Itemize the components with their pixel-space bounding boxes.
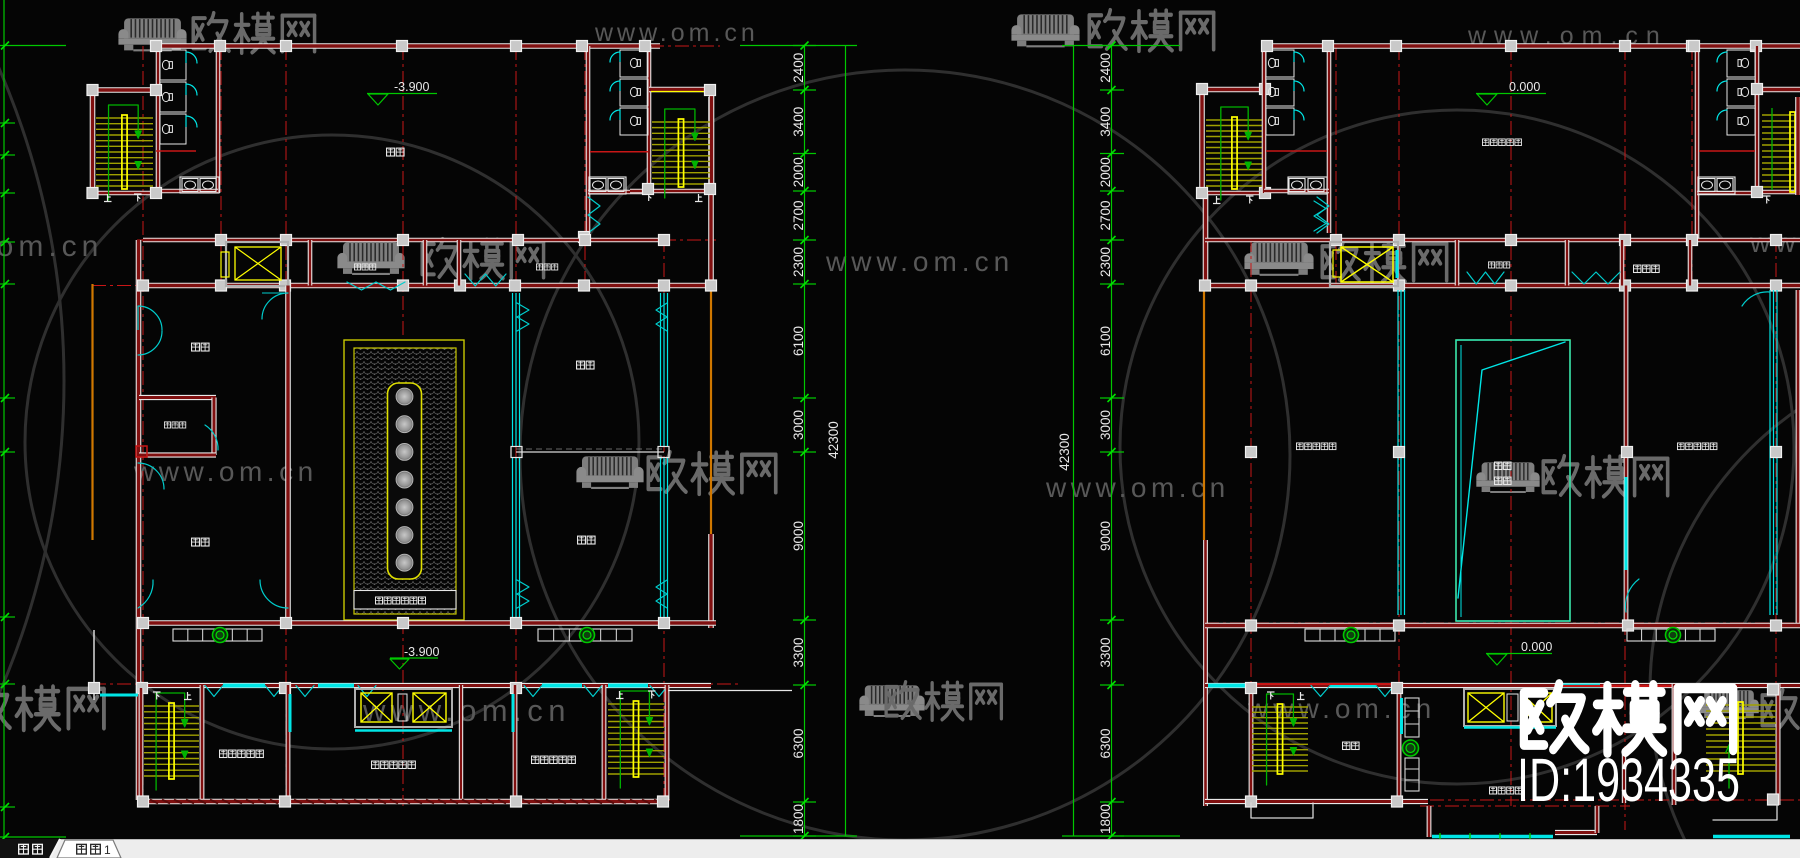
RP stair TL treads (1206, 119, 1263, 121)
svg-text:www.om.cn: www.om.cn (594, 19, 759, 47)
kitchen2 label (192, 538, 200, 546)
site logo big (1524, 684, 1733, 753)
band2 bottom wall (137, 283, 716, 289)
model tab dark (0, 839, 60, 858)
toilet block TL walls (156, 46, 161, 193)
RP right window wall (1769, 290, 1771, 615)
left exterior white line lower (93, 630, 95, 700)
RP left window wall (1400, 290, 1402, 615)
axis grid right plan (1250, 238, 1252, 806)
RP right room left wall (1624, 286, 1629, 624)
RP left exterior wall (1203, 195, 1209, 284)
bottom band bottom columns (138, 796, 149, 807)
stair TR corner columns (705, 85, 716, 96)
watermark circle center (520, 70, 1290, 840)
bottom band windows (223, 684, 265, 688)
svg-text:2400: 2400 (791, 53, 806, 83)
kitchen1 doors (138, 306, 162, 330)
RP entrance cyan (1432, 835, 1553, 839)
RP toilet TR walls (1695, 46, 1700, 240)
svg-text:www.om.cn: www.om.cn (825, 246, 1014, 277)
RP stair TL labels (1213, 196, 1221, 204)
corridor wall (285, 286, 291, 624)
stair BR treads (608, 703, 664, 705)
toilet TR sinks (589, 177, 626, 194)
svg-text:1: 1 (104, 843, 111, 857)
watermark sofa+logo top-center (1011, 14, 1079, 46)
svg-text:6300: 6300 (1098, 728, 1113, 758)
RP rest walls (1620, 240, 1625, 286)
svg-text:2300: 2300 (1098, 247, 1113, 277)
kitchen1 label (192, 343, 200, 351)
guard room label (536, 264, 542, 270)
RP stair BL labels (1267, 692, 1275, 700)
RP courtyard label (1495, 462, 1502, 469)
watermark sofa+logo top-left (118, 18, 186, 50)
tab bar background (0, 839, 1800, 858)
RP bottom band columns (1246, 683, 1257, 694)
watermark circle right (1120, 110, 1794, 784)
left cyan stub (100, 694, 138, 697)
RP stair TR treads (1762, 114, 1800, 116)
dimension chain right-plan (1111, 46, 1113, 837)
RP toilet door zigzag (1317, 197, 1329, 233)
dining divider squares (511, 447, 522, 458)
RP stair BR treads (1706, 704, 1776, 706)
watermark logo row3-far-right (1476, 462, 1539, 492)
stair block TR walls (709, 89, 715, 192)
svg-text:ID:1934335: ID:1934335 (1517, 746, 1740, 814)
stair TR labels (645, 194, 653, 202)
bottom exterior wall (138, 799, 667, 805)
RP stair TR columns (1689, 41, 1700, 52)
RP toilet TR stalls (1727, 50, 1755, 77)
svg-text:-3.900: -3.900 (394, 80, 429, 94)
storage label (164, 422, 170, 428)
band2 columns (216, 235, 227, 246)
RP top columns (1262, 41, 1273, 52)
left edge dimension ticks (3, 0, 5, 837)
main bottom wall (137, 620, 716, 626)
stair TL treads (96, 117, 153, 119)
watermark circle corner (1650, 350, 1800, 858)
toilet TL stalls (160, 50, 186, 80)
right exterior wall upper (708, 97, 714, 284)
RP mid bottom columns (1246, 620, 1257, 631)
watermark logo row2-far-right (1244, 242, 1313, 274)
RP entrance walls (1427, 806, 1432, 837)
RP mid label right (1677, 443, 1684, 450)
RP entrance hall label (1490, 787, 1497, 794)
watermark circle far-left (0, 0, 64, 858)
svg-text:3300: 3300 (791, 637, 806, 667)
RP bench right (1627, 629, 1715, 641)
RP hall label (1482, 139, 1489, 146)
RP left exterior lower (1203, 540, 1208, 806)
RP stair TR label (1763, 196, 1771, 204)
svg-text:2700: 2700 (1098, 200, 1113, 230)
RP toilet sinks (1288, 177, 1327, 194)
elevator pair walls (355, 689, 452, 727)
RP mid bottom wall (1205, 623, 1800, 629)
RP store label (1488, 262, 1494, 268)
RP stair BR columns (1768, 684, 1779, 695)
svg-text:3000: 3000 (791, 410, 806, 440)
toilet block TR walls (586, 46, 591, 233)
svg-text:2000: 2000 (1098, 157, 1113, 187)
watermark logo row4-corner (1699, 690, 1759, 718)
storage room walls (139, 395, 216, 400)
toilet TL sinks (180, 177, 219, 193)
RP stair TR walls (1757, 87, 1800, 93)
bottom band door zigzags (205, 686, 223, 697)
bottom band columns (89, 683, 100, 694)
bench left (173, 629, 262, 641)
stair block BL walls (139, 688, 144, 800)
stair TL corner columns (87, 85, 98, 96)
svg-text:www.om.cn: www.om.cn (362, 693, 571, 728)
svg-text:6100: 6100 (1098, 326, 1113, 356)
svg-text:9000: 9000 (1098, 521, 1113, 551)
svg-text:3000: 3000 (1098, 410, 1113, 440)
RP bottom door zigzags (1311, 686, 1330, 697)
RP band2 top wall (1205, 238, 1800, 243)
stair TR treads (652, 121, 710, 123)
RP shelf (1405, 698, 1419, 737)
RP shop right wall (1397, 688, 1402, 803)
bottom wall hatches (138, 800, 146, 804)
toilet TR stalls (620, 50, 648, 77)
axis grid left plan (142, 46, 144, 800)
stair block BR walls (602, 685, 607, 800)
corridor door bottom (260, 580, 288, 608)
RP door left band2 (1314, 201, 1326, 231)
RP toilet TR sinks (1698, 177, 1735, 194)
right white extension (668, 690, 792, 692)
svg-text:-3.900: -3.900 (404, 645, 439, 659)
stair TL labels (104, 194, 112, 202)
RP band2 columns (1331, 235, 1342, 246)
storage door arc (205, 425, 218, 450)
svg-text:0.000: 0.000 (1521, 640, 1552, 654)
dimension chain left-plan (804, 46, 806, 837)
office label (372, 761, 379, 768)
svg-text:3400: 3400 (1098, 107, 1113, 137)
staff room 1 walls (286, 685, 291, 800)
svg-text:1800: 1800 (1098, 804, 1113, 834)
RP bottom band top wall (1205, 683, 1800, 688)
svg-text:6100: 6100 (791, 326, 806, 356)
kitchen2 doors (138, 463, 164, 489)
RP right edge wall (1795, 97, 1800, 195)
staff room 2 walls (513, 685, 518, 800)
dining divider (516, 451, 664, 453)
RP right room door (1625, 579, 1639, 612)
RP entrance ticks (1439, 833, 1441, 840)
svg-text:3400: 3400 (791, 107, 806, 137)
store room window (347, 282, 405, 290)
pool inner walk (388, 383, 422, 579)
guard room wall (457, 240, 462, 286)
RP toilet stalls (1266, 50, 1294, 77)
partition wall 461 (459, 685, 463, 800)
staff room 1 label (220, 750, 227, 757)
dining hall top label (387, 148, 395, 156)
svg-text:2400: 2400 (1098, 53, 1113, 83)
RP store walls (1455, 240, 1460, 286)
watermark logo row2-center (337, 242, 404, 274)
RP mid columns (1246, 447, 1257, 458)
RP store door (1467, 272, 1504, 284)
pool stones (396, 388, 413, 405)
svg-text:2000: 2000 (791, 157, 806, 187)
bottom band top wall (138, 683, 711, 688)
layout tab label (77, 844, 87, 854)
top wall columns (151, 41, 162, 52)
elevator 1 (226, 242, 288, 286)
svg-text:6300: 6300 (791, 728, 806, 758)
store room walls (308, 240, 313, 286)
RP stair TL columns (1197, 84, 1208, 95)
svg-text:0.000: 0.000 (1509, 80, 1540, 94)
RP stair TL walls (1199, 88, 1205, 193)
RP toilet walls (1262, 46, 1267, 193)
band2 top wall (143, 238, 660, 243)
store room label (354, 264, 360, 270)
guard room door zigzag (465, 274, 506, 286)
RP stair BR walls (1776, 684, 1781, 805)
svg-text:9000: 9000 (791, 521, 806, 551)
RP band2 bottom wall (1205, 283, 1800, 289)
RP courtyard (1456, 340, 1570, 621)
kitchen red column (136, 446, 147, 457)
toilet TR door zigzag (588, 197, 600, 233)
RP porch left (1251, 803, 1313, 818)
layout tab (57, 840, 121, 858)
svg-text:www.om.cn: www.om.cn (0, 230, 103, 263)
right exterior orange line (710, 284, 712, 534)
staff room 2 label (532, 756, 539, 763)
RP elevator (1330, 242, 1398, 286)
stair BL treads (144, 705, 199, 707)
bottom wall columns (138, 618, 149, 629)
dining label bottom (578, 536, 586, 544)
RP porch right (1713, 805, 1777, 820)
svg-text:42300: 42300 (826, 421, 841, 459)
RP stair BL walls (1249, 688, 1254, 803)
left exterior wall (136, 240, 142, 800)
svg-text:2700: 2700 (791, 200, 806, 230)
dining right window wall (660, 293, 662, 447)
svg-text:2300: 2300 (791, 247, 806, 277)
pool outer rect (344, 340, 464, 620)
RP rest zigzag (1572, 272, 1620, 284)
left exterior orange line (91, 284, 93, 540)
model tab label (19, 844, 29, 854)
svg-text:1800: 1800 (791, 804, 806, 834)
dining zigzags (517, 303, 529, 331)
watermark circle left (25, 135, 639, 749)
RP shop label (1343, 742, 1350, 749)
stair BR labels (616, 691, 624, 699)
watermark logo row4-mid (859, 685, 924, 716)
RP bottom wall left (1205, 799, 1428, 804)
RP door arcs top (1742, 292, 1770, 306)
RP wc walls (1555, 685, 1674, 687)
watermark logo row4-left (0, 686, 104, 730)
RP stair BL treads (1252, 706, 1308, 708)
right exterior wall lower (708, 534, 714, 628)
RP bench left (1305, 629, 1395, 641)
svg-text:www.om.cn: www.om.cn (1045, 472, 1230, 503)
watermark logo row3-center (576, 456, 643, 488)
top wall (156, 43, 660, 49)
RP rest label (1634, 265, 1641, 272)
RP top wall (1262, 43, 1800, 49)
svg-text:42300: 42300 (1057, 433, 1072, 471)
stair block TL walls (90, 90, 96, 193)
pool label box (354, 591, 456, 610)
svg-text:3300: 3300 (1098, 637, 1113, 667)
dining left window wall (512, 293, 514, 447)
RP bottom band windows (1208, 684, 1247, 688)
bench right (538, 629, 632, 641)
stair BL labels (153, 692, 161, 700)
RP left exterior orange (1203, 284, 1205, 540)
RP mid label left (1296, 443, 1303, 450)
RP elevator pair (1464, 689, 1556, 726)
dining label top (577, 361, 585, 369)
corridor door top (262, 293, 288, 319)
